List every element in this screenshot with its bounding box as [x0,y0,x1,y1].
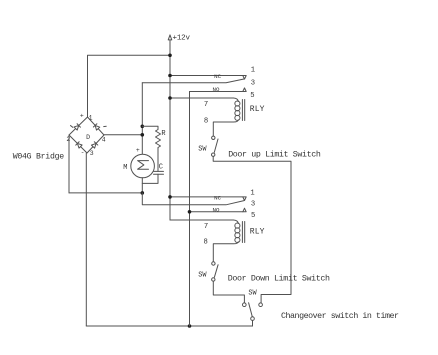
svg-text:D: D [86,134,90,141]
wire bottom ground rail [86,325,252,327]
node junction NO-bus/NO2 [188,210,192,214]
wire SW3 pole to bottom rail [252,320,254,326]
svg-text:SW: SW [198,271,207,279]
relay1 coil core bars [242,100,244,121]
svg-text:7: 7 [204,101,208,109]
wire SW2 to changeover left contact [213,281,244,303]
svg-text:Door up Limit Switch: Door up Limit Switch [228,150,321,160]
relay1 NC contact line [170,75,243,77]
svg-text:+: + [136,147,140,154]
svg-text:8: 8 [204,117,208,125]
svg-text:5: 5 [250,92,254,100]
resistor R [142,126,160,171]
svg-text:SW: SW [198,146,207,154]
svg-text:7: 7 [204,223,208,231]
relay2 coil core bars [242,222,244,243]
switch SW3 changeover contact circles [243,303,247,307]
svg-text:5: 5 [251,212,255,220]
svg-text:-: - [81,149,85,156]
svg-text:+12v: +12v [173,35,191,43]
relay1 coil RLY loops [235,101,240,106]
diode D2 top-right edge [93,124,100,130]
svg-text:1: 1 [250,189,254,197]
svg-text:+: + [80,113,84,120]
wire motor bottom rail [69,192,142,194]
switch SW2 door-down contact circles [212,262,215,265]
wire top-left branch to bridge + terminal [88,55,171,117]
label bridge ~ right [103,125,106,127]
bridge rectifier D (W04G) diamond [69,117,104,153]
node junction NO-bus / bottom rail [188,324,192,328]
+12v supply arrow terminal [168,35,172,40]
wire NO bus vertical [189,92,191,327]
svg-text:C: C [159,163,163,171]
svg-text:Door Down Limit Switch: Door Down Limit Switch [228,273,330,283]
svg-text:2: 2 [66,136,70,143]
svg-text:1: 1 [251,67,255,75]
relay2 coil RLY loops [235,223,240,228]
svg-text:8: 8 [204,239,208,247]
svg-text:SW: SW [248,289,257,297]
svg-text:RLY: RLY [250,105,265,114]
wire motor column vertical (relay1 pin3 feed) [141,83,143,155]
svg-text:NO: NO [213,206,220,213]
svg-text:Changeover switch in timer: Changeover switch in timer [281,311,399,321]
svg-text:NC: NC [214,73,221,80]
switch SW1 door-up contact circles [212,136,215,139]
relay1 coil feed pin7 [170,98,238,102]
node junction motor bottom / rail [141,191,145,195]
relay1 coil return pin8 [213,120,238,136]
svg-text:4: 4 [102,137,106,144]
diode D4 bottom-right edge [91,142,98,148]
relay2 coil return pin8 [213,242,238,262]
relay2 NO contact line [190,211,243,213]
node junction motor column / bridge branch [141,133,145,137]
motor sigma symbol [138,161,149,170]
diode D1 top-left edge [74,124,81,131]
diode D3 bottom-left edge [76,142,83,149]
wire relay2 pin3 feed drop [142,193,244,205]
switch SW1 lever [214,139,218,152]
wire bridge AC(4) right vertex to motor column [104,134,142,136]
node junction +12v/top-left [168,54,172,58]
switch SW2 lever [214,265,218,278]
svg-text:RLY: RLY [250,227,265,236]
svg-text:M: M [123,164,127,172]
capacitor C plates [154,171,164,174]
relay2 coil feed pin7 [170,220,238,224]
relay1 NO contact triangle pin5 [243,88,246,92]
node junction motor column / R branch [141,125,145,129]
wire bridge minus(3) down to bottom rail [85,153,87,326]
svg-text:3: 3 [251,80,255,88]
svg-text:NO: NO [213,86,220,93]
relay1 NC contact triangle pin1 [243,76,246,80]
svg-text:3: 3 [90,150,94,157]
relay1 NO contact line [190,91,243,93]
svg-text:1: 1 [89,115,93,122]
svg-text:NC: NC [214,194,221,201]
wire SW1 to right riser [213,156,291,303]
motor M circle [131,154,155,178]
svg-text:W04G Bridge: W04G Bridge [13,152,65,162]
label bridge ~ left [70,125,73,127]
wire motor bottom lead [141,178,143,193]
node junction bus/NC1 [168,74,172,78]
svg-text:3: 3 [251,200,255,208]
relay2 NO contact triangle pin5 [243,208,246,212]
wire capacitor bottom return [142,174,158,183]
wire +12v bus vertical [169,40,171,220]
wire relay1 pin3 horizontal [142,79,244,83]
node junction bus/NC2 [168,195,172,199]
relay2 NC contact line [170,196,243,198]
relay2 NC contact triangle pin1 [243,197,246,201]
wire bridge AC(2) left vertex down to motor bottom rail [68,135,70,193]
node junction bus/coil1 [168,96,172,100]
switch SW3 lever [249,303,253,317]
